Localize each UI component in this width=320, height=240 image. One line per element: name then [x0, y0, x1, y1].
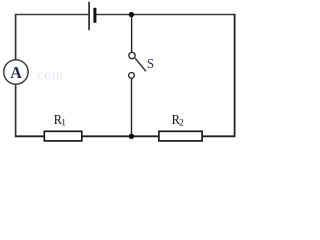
wire left-lower [15, 84, 17, 137]
svg-text:A: A [10, 63, 22, 82]
svg-text:2: 2 [179, 118, 184, 128]
node bottom junction [129, 134, 134, 139]
wire left-upper [15, 14, 17, 60]
wire bottom-middle [82, 135, 159, 137]
wire top-left [16, 14, 89, 16]
wire switch-bottom [131, 78, 133, 136]
node top junction [129, 12, 134, 17]
resistor R2 [159, 131, 202, 141]
label R1 [54, 113, 67, 128]
svg-text:1: 1 [61, 118, 66, 128]
svg-text:.com: .com [33, 68, 64, 84]
svg-text:S: S [147, 57, 154, 72]
resistor R1 [44, 131, 82, 141]
wire right [234, 14, 236, 137]
wire bottom-right [202, 135, 235, 137]
wire bottom-left [15, 135, 45, 137]
battery [89, 2, 95, 30]
wire top-right [96, 14, 235, 16]
switch S [129, 52, 146, 78]
label R2 [172, 113, 184, 128]
ammeter A [4, 60, 28, 84]
wire switch-top [131, 15, 133, 53]
